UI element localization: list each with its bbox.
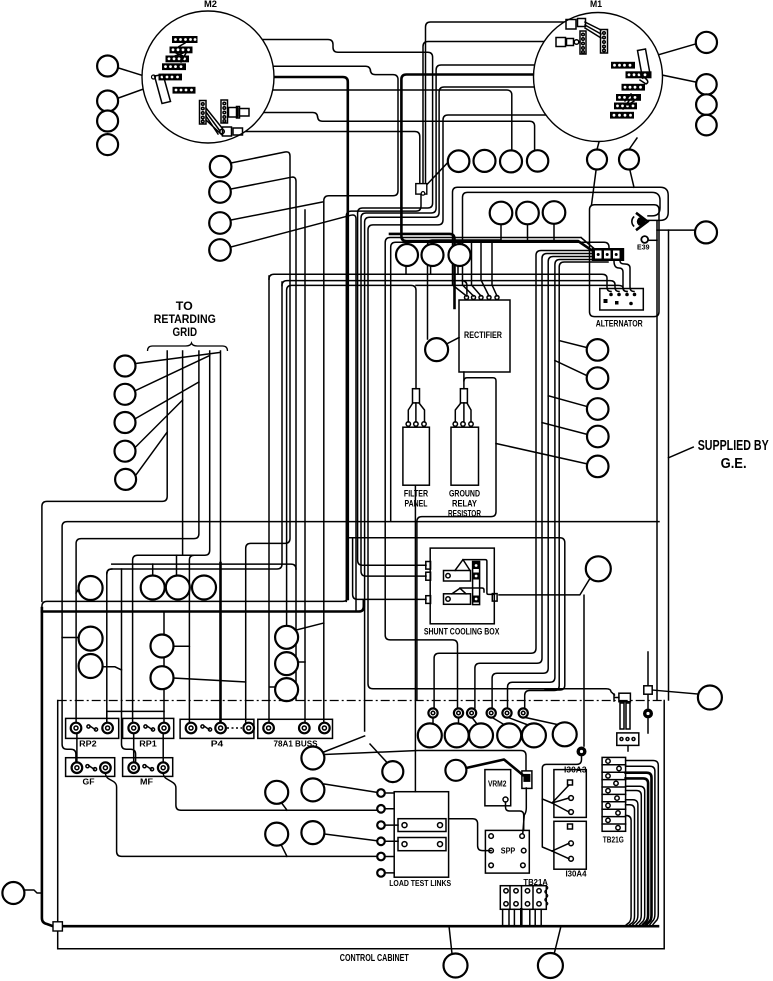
black hex terminal near I30A3	[577, 747, 587, 757]
circle 312/758 diag up to x364.6	[324, 736, 365, 752]
bolt E39 symbol	[632, 213, 648, 230]
circle RC1	[587, 339, 609, 361]
shunt element 1	[455, 560, 470, 571]
diag GRR wire to circle RC5	[496, 444, 587, 464]
wire M1 plug2 left down x423 to connector	[423, 42, 556, 185]
diag circle RG4 to wire2	[136, 400, 183, 447]
circle L1	[97, 56, 118, 77]
svg-text:TB21A: TB21A	[523, 878, 548, 887]
connector black square	[522, 771, 532, 789]
filter panel bottom wire down to links box	[414, 485, 416, 792]
circle B2	[538, 953, 563, 978]
wire GF-R down right to links bolt5	[105, 773, 381, 856]
circle MC3	[543, 201, 566, 224]
motor M1	[534, 0, 663, 142]
circle stubs to links wires	[281, 784, 382, 856]
wire M2 strip1 right, down x432, left band y208, down x357 to shunt terminal 1	[197, 40, 433, 566]
M2 terminal strip 5	[152, 74, 183, 81]
motor M2	[142, 0, 274, 143]
wire circle L1 to M2 bar	[119, 68, 158, 80]
long right vertical from RE39 wire down	[668, 230, 670, 700]
circle SH-C	[586, 556, 611, 581]
trio circle2 stub	[176, 555, 178, 577]
MF box	[123, 758, 173, 777]
E39 small circle	[641, 236, 648, 243]
bundleA x269 down to 78A1-T1	[268, 276, 270, 728]
circle C312	[301, 747, 324, 770]
circle LL3	[79, 654, 103, 678]
RP2 box	[66, 718, 119, 738]
circle RC4	[587, 426, 609, 448]
circle C312c	[301, 821, 324, 844]
M2 plug wires diag	[206, 108, 222, 135]
retarding wire3 to RP2L	[76, 351, 199, 728]
M1 plug 2	[556, 38, 579, 47]
svg-text:LOAD TEST LINKS: LOAD TEST LINKS	[389, 879, 452, 888]
bundleA x282 down bend y569 to x106.8 to RP2R	[107, 282, 282, 728]
M1 strip A	[611, 62, 635, 69]
shunt loop thick top and right	[348, 538, 565, 690]
circle RECT-C	[425, 338, 448, 361]
wire x305 down to 78A1-T2	[304, 210, 306, 728]
M1 strip C	[622, 84, 646, 91]
svg-text:RP2: RP2	[79, 740, 97, 749]
retarding wire5 thick lower part	[219, 563, 222, 728]
shunt vertical feed 4 to hex5	[508, 260, 605, 709]
svg-text:GROUND: GROUND	[449, 489, 480, 499]
feed corner to rectifier pin1	[462, 281, 467, 294]
circle LT1	[396, 244, 418, 266]
P4 box	[180, 719, 254, 738]
circle ML4	[209, 239, 231, 261]
circle R1	[696, 32, 717, 53]
circle TC4	[527, 150, 548, 171]
filter panel funnel	[408, 403, 424, 422]
circle BL	[2, 882, 24, 904]
diag circle RG3 to wire3	[136, 382, 199, 419]
bottom circle diag to bus	[554, 926, 561, 955]
svg-text:MF: MF	[140, 778, 153, 787]
left terminals	[426, 562, 431, 570]
circle CAB3	[469, 723, 493, 747]
pointer supplied by GE	[669, 447, 694, 458]
VRM2 box	[485, 770, 511, 806]
circle TRIO2	[166, 576, 190, 600]
M2 connector strip B	[221, 100, 228, 123]
wire connector diag down, left band y200.5, down x346.3	[346, 194, 421, 601]
wire connector to circle TC1	[425, 163, 448, 188]
svg-text:I30A3: I30A3	[564, 766, 587, 775]
circle ML2	[209, 181, 231, 203]
circle R2	[696, 74, 717, 95]
svg-text:SPP: SPP	[501, 847, 516, 856]
circle TRIO3	[192, 576, 216, 600]
svg-text:I30A4: I30A4	[566, 870, 588, 879]
wire M1 edge to circle R2	[662, 75, 695, 82]
circle RG3	[115, 412, 136, 433]
LT circle stems onto feed line	[406, 266, 458, 274]
GRR funnel	[455, 403, 471, 422]
M2 terminal strip 6	[173, 87, 196, 94]
M2 terminal strip 1	[172, 36, 198, 43]
shunt box left wire 3	[353, 538, 426, 600]
hex stem wires to circles row	[433, 717, 557, 725]
LOAD TEST LINKS box	[377, 789, 448, 877]
circle LM2 diag to x245.7	[173, 678, 245, 682]
M2 plug 1	[229, 107, 250, 119]
hex582 wire to I30 brackets	[542, 757, 581, 851]
circle LL2	[79, 627, 103, 651]
wire E39 circle stub	[648, 239, 657, 241]
link bar 2	[398, 838, 446, 851]
wire M1 plug1 left down x425.5 to connector	[426, 22, 567, 184]
shunt vertical feed 5 to hex6	[525, 262, 608, 708]
circle RC5	[587, 456, 609, 478]
circle R4	[696, 115, 717, 136]
circle RG2	[115, 384, 136, 405]
svg-text:SHUNT COOLING BOX: SHUNT COOLING BOX	[424, 627, 500, 637]
alternator terminal strip	[592, 248, 625, 261]
edge bolts	[377, 789, 398, 877]
M1 plug1 diag wires to strip	[585, 22, 601, 38]
wire loop line a from rectifier to bolt E39	[453, 187, 669, 296]
wire circle L2 to M2	[119, 87, 150, 98]
shunt cooling box	[426, 548, 497, 624]
svg-text:GF: GF	[83, 778, 95, 787]
circle RT3	[275, 678, 298, 701]
alternator feed y271 from x269	[269, 274, 611, 291]
diag to circle RC2	[555, 361, 587, 376]
circle LM1 to vertical x189.4 down to P4L	[173, 646, 189, 728]
circle RT2 stub to x305	[298, 661, 305, 663]
MC circle stems	[501, 224, 554, 242]
svg-text:TB21G: TB21G	[603, 836, 624, 845]
M1 strip E	[614, 103, 637, 110]
svg-text:G.E.: G.E.	[721, 456, 747, 472]
M2 cross wires strips2-3	[175, 43, 186, 62]
M1 conn strip vertical 2	[580, 31, 586, 54]
svg-text:SUPPLIED BY: SUPPLIED BY	[698, 438, 769, 454]
ground relay resistor wire loop down left	[417, 378, 496, 700]
wire loop line b from rectifier to bolt E39	[463, 192, 661, 296]
wire M1 slantbar to circle R1	[651, 44, 695, 57]
SPP box	[485, 830, 529, 873]
small relay component	[614, 693, 639, 745]
svg-text:VRM2: VRM2	[488, 780, 507, 789]
bracket I30A4	[552, 843, 569, 859]
control cabinet box	[58, 701, 665, 949]
I30A3 box	[554, 770, 586, 818]
diag to circle RC4	[542, 423, 587, 435]
wire M1 stripB thick left, down x401.4, right y241 jog to alternator strip	[401, 75, 625, 250]
M1 bar bottom hook	[640, 73, 648, 84]
bottom-left circle wire	[25, 890, 42, 893]
thick bus horizontal y611.5 from x363.8	[42, 601, 364, 611]
RP1R feed	[163, 612, 165, 729]
link bar 1	[398, 819, 446, 832]
circle RC2	[587, 367, 609, 389]
circle RG1	[115, 356, 136, 377]
trio circle1 stub up	[152, 564, 154, 575]
circle CAB5	[522, 723, 546, 747]
wire M2 plug2 right down x419.8 to connector	[244, 132, 420, 185]
circle LM2	[151, 666, 174, 689]
shunt vertical feed 1 to hex1	[434, 251, 592, 709]
spp left wire to links	[449, 819, 492, 851]
circle L4	[97, 134, 118, 155]
GF MF terminal stubs	[77, 711, 163, 763]
circle C276b	[265, 823, 288, 846]
retarding wire5 to P4 mid	[220, 351, 222, 565]
comp verticals	[647, 652, 649, 686]
wire circle TC6 stem down to loop a	[630, 171, 634, 188]
circle TRIO1	[141, 576, 165, 600]
circle ML1	[210, 156, 232, 178]
diag circle RG1 to wire5	[136, 353, 220, 364]
wire corner x427.5 down to rect circle	[428, 240, 501, 339]
circle RG5	[115, 469, 136, 490]
circle L2	[97, 91, 118, 112]
circle LL1	[79, 576, 103, 600]
M2 terminal strip 3	[166, 56, 190, 63]
M2 terminal strip 2	[170, 47, 193, 54]
M1 plug 1	[566, 19, 586, 30]
circle LT3	[449, 244, 471, 266]
circle MC2	[516, 202, 539, 225]
circle RE39	[695, 221, 717, 243]
shunt circle wire	[499, 580, 589, 595]
bracket I30A3	[542, 785, 569, 812]
ground relay resistor fuse	[460, 389, 467, 403]
svg-text:P4: P4	[211, 740, 224, 749]
M1 circle	[534, 13, 663, 142]
shunt circle down wire to black hex	[583, 595, 585, 746]
M1 conn strip vertical 1	[601, 30, 608, 54]
circle TC2	[474, 150, 496, 172]
filter panel fuse	[413, 389, 420, 403]
alternator feed y266.5	[614, 261, 634, 292]
svg-text:78A1 BUSS: 78A1 BUSS	[274, 740, 319, 749]
shunt vertical feed 3 to hex4	[492, 257, 600, 709]
retarding grid brace	[148, 343, 228, 351]
78A1 BUSS box	[258, 719, 333, 738]
circle C456	[445, 760, 466, 781]
TB21A wires below	[503, 909, 542, 925]
vertical x189.4 top to y555.2	[189, 555, 194, 646]
circle 393/771 diag up	[370, 744, 387, 763]
thick wire y233.9 down x454.5 to rectifier area	[390, 234, 455, 308]
circle CAB2	[445, 723, 469, 747]
M1 cross wires D-E	[623, 94, 634, 109]
circle TC3	[500, 150, 522, 172]
M1 strip F	[610, 112, 634, 119]
wire to circle RE39	[657, 229, 694, 231]
circle L3	[97, 111, 118, 132]
circle LT2	[422, 244, 444, 266]
ML1 diag wire down x290 bend y543.4 to x245.7 to P4R	[231, 152, 290, 728]
comp stems	[628, 695, 648, 752]
retarding wire1 bend y501.4 to x41.9	[42, 351, 167, 601]
svg-text:M2: M2	[204, 0, 217, 9]
M1 strip D	[616, 94, 641, 101]
white square terminal right	[644, 686, 652, 694]
wire MF-R down right to links bolt2	[163, 773, 381, 810]
circle LL3 stub to x121.5	[103, 667, 122, 670]
circle TC5	[587, 150, 607, 170]
wire x121.5 from y569 to MFL	[122, 569, 136, 763]
black hex terminal right	[643, 709, 653, 719]
alternator feed 4	[416, 285, 627, 291]
filter fuse wire up left down x286.6 to circle RT1	[287, 285, 416, 625]
circle RT2	[275, 652, 298, 675]
diag ML4 down x356	[231, 215, 356, 612]
circle RT3 stub to x269	[269, 686, 275, 688]
GRR fuse to rectifier bottom	[463, 372, 465, 389]
wire M2 plug1 square jog to circle TC4	[246, 113, 535, 151]
svg-text:RECTIFIER: RECTIFIER	[464, 330, 502, 340]
M2 connector strip A	[200, 101, 207, 125]
hex terminals row	[428, 708, 527, 717]
M2 circle	[142, 11, 274, 143]
circle CAB1	[418, 723, 442, 747]
svg-text:GRID: GRID	[173, 325, 198, 339]
diag to circle RC3	[548, 396, 587, 407]
M2 terminal strip 4	[162, 63, 186, 70]
circle B1	[444, 954, 468, 978]
circle CAB4	[497, 723, 521, 747]
RP2R junction horizontal	[107, 710, 164, 712]
wire circle TC5 stem up to M1	[597, 142, 599, 150]
supplied-by-GE enclosure around alternator	[590, 205, 660, 317]
wire M2 strip4 jog down x398, left y195.8, down x323.8 to 78A1-T3	[186, 66, 398, 728]
I30A4 box	[554, 821, 586, 869]
wire circle TC5 stem down to enclosure top	[592, 171, 597, 205]
M1 strip B	[626, 71, 652, 78]
rectifier top pin wires	[472, 242, 498, 296]
circle RG4	[115, 441, 136, 462]
svg-text:RELAY: RELAY	[452, 499, 477, 509]
bottom circle1 stub	[449, 926, 452, 954]
retarding wire4 via x132.6 to RP1L	[133, 351, 210, 728]
long vertical x657	[656, 222, 658, 701]
rectifier top pins	[465, 296, 469, 300]
diag circle RG2 to wire4	[136, 356, 210, 391]
circle C393	[382, 761, 403, 782]
svg-text:RESISTOR: RESISTOR	[448, 509, 481, 519]
circle TC1	[448, 150, 470, 172]
GF box	[66, 758, 115, 777]
circle RC3	[587, 398, 609, 420]
circle MC1	[490, 202, 513, 225]
cabinet corner square	[53, 922, 62, 931]
wire M2 strip5 thick down x347.8, left y601.4, down x41.9 to cabinet square	[182, 77, 348, 599]
filter panel box	[403, 422, 430, 485]
circle RT1 diag to x323.8	[294, 623, 323, 631]
alternator box	[600, 289, 644, 311]
wire circle 312/758 right to connector	[324, 751, 526, 771]
RP1 box	[123, 718, 174, 738]
strip vertical	[473, 562, 480, 605]
shunt element 2	[452, 588, 466, 594]
circle C312b	[301, 778, 324, 801]
circle LL2 stub left to x62.1	[62, 637, 79, 639]
circle C276a	[265, 781, 288, 804]
connector lines down	[523, 788, 527, 833]
circle 456/770 thick diag to connector	[466, 760, 523, 776]
main bus thick	[63, 925, 659, 928]
rectifier box	[459, 300, 510, 372]
circle CAB6	[553, 722, 577, 746]
circle ML3	[209, 212, 231, 234]
M2 plug 2	[220, 127, 243, 136]
svg-text:PANEL: PANEL	[405, 499, 428, 509]
M2 slanted bar	[155, 75, 171, 104]
svg-text:FILTER: FILTER	[404, 489, 429, 499]
circle LM1	[151, 635, 174, 658]
GE circle wire to square	[652, 690, 698, 694]
vrm2 dot wire	[506, 802, 524, 830]
right exit terminal	[492, 594, 497, 602]
circle R3	[696, 94, 717, 115]
wire circle TC6 stem up to M1	[629, 138, 637, 150]
TB21G wires fanning	[626, 761, 659, 925]
shunt vertical feed 2 to hex3	[475, 254, 596, 709]
circle RT1	[275, 626, 298, 649]
TB21A terminal strip	[500, 886, 548, 910]
rectifier circle stem	[447, 338, 460, 345]
wire M1 stripA left, down x436.1, left y213, down x361 to shunt terminal 2	[361, 65, 611, 576]
wire band y237.5 jog to strip and down x385.2 via y639.9 to hex2	[385, 238, 594, 709]
M1 slanted bar	[638, 49, 651, 78]
svg-text:M1: M1	[590, 0, 602, 9]
svg-text:E39: E39	[637, 243, 650, 252]
connector box under TC1	[416, 184, 427, 195]
svg-text:ALTERNATOR: ALTERNATOR	[596, 319, 643, 330]
svg-text:CONTROL CABINET: CONTROL CABINET	[340, 953, 409, 964]
diag ML2 down x296	[231, 177, 296, 700]
wire band y233.7 jog to strip and down x390.7 via y521.6 to GF	[62, 242, 659, 763]
circle TC6	[619, 150, 639, 170]
wire M2 strip6 to circle TC3	[196, 90, 512, 150]
svg-text:RP1: RP1	[139, 740, 157, 749]
alternator feed y280.6 from x282	[282, 281, 619, 292]
circle LL1 stub	[76, 588, 79, 593]
ground relay resistor box	[451, 422, 479, 485]
diag to circle RC1	[559, 341, 587, 348]
svg-text:RETARDING: RETARDING	[154, 312, 216, 326]
diag ML3 to x323.8	[231, 202, 322, 220]
wire M1 stripF left, down x443, left y224.9, down x368, right y688.7 to comp	[368, 115, 615, 695]
wire M1 stripC left, down x439.1, left y217.2, down x364.6	[365, 87, 622, 731]
diag circle RG5 to wire1	[136, 432, 168, 476]
retarding wire2 to trio2	[182, 351, 184, 555]
TB21G terminal strip	[602, 757, 626, 831]
wire y564.1 from x106.8 to right merge	[107, 564, 296, 574]
circle GE-C	[698, 686, 722, 710]
